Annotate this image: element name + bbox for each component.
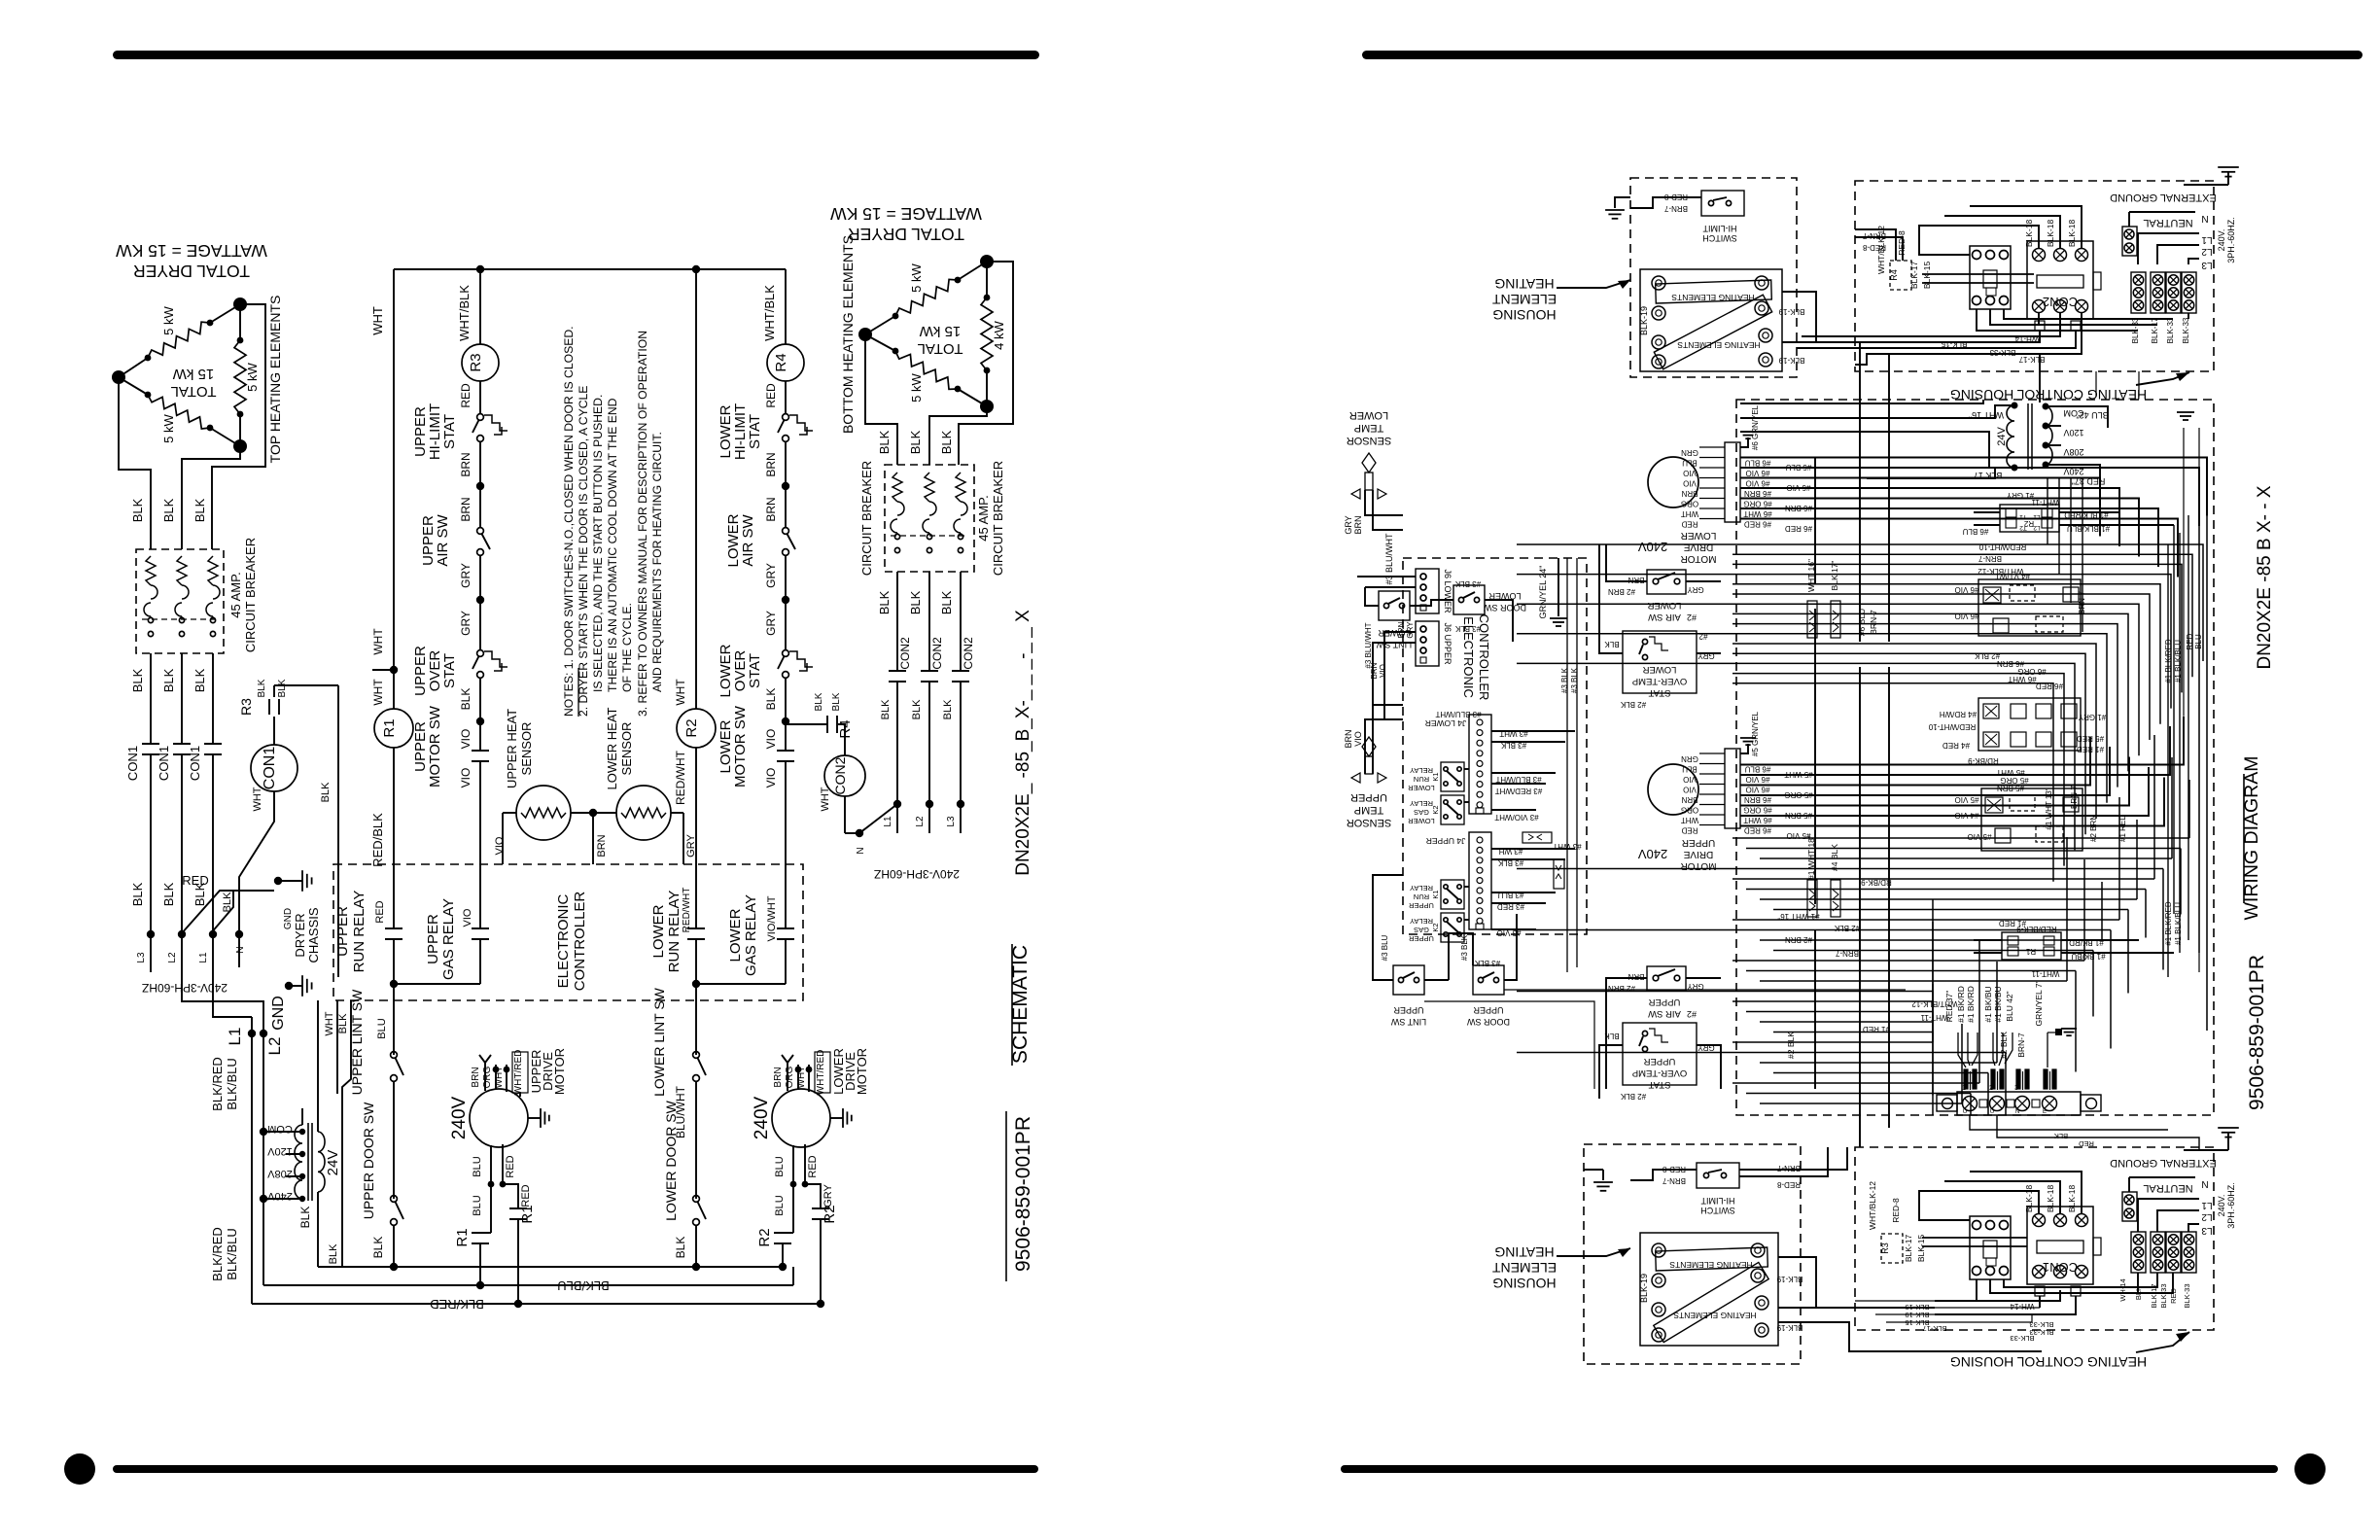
- svg-text:GRN: GRN: [1681, 754, 1698, 763]
- svg-text:STAT: STAT: [441, 414, 458, 449]
- lower gas relay contact: [777, 927, 794, 929]
- svg-text:HOUSING: HOUSING: [1492, 1276, 1556, 1291]
- svg-text:BRN: BRN: [764, 497, 778, 521]
- run capacitor contact R2 left: [783, 1232, 793, 1234]
- arrow to element housing (bottom): [1557, 1248, 1630, 1256]
- svg-text:BRN: BRN: [1681, 489, 1697, 498]
- svg-text:RED-8: RED-8: [1776, 1180, 1801, 1189]
- svg-text:T2: T2: [2019, 524, 2027, 531]
- svg-text:LINT SW: LINT SW: [1390, 1017, 1426, 1027]
- relay coil R3: [479, 269, 481, 344]
- upper lint switch: [391, 1052, 398, 1059]
- svg-text:LOWER: LOWER: [1642, 664, 1676, 675]
- svg-text:BLU: BLU: [472, 1195, 483, 1215]
- svg-text:R2: R2: [822, 1205, 838, 1223]
- svg-text:AIR SW: AIR SW: [435, 513, 451, 566]
- svg-text:#4 RD/WH: #4 RD/WH: [1940, 710, 1977, 718]
- bottom rail BLK/BLU: [263, 1284, 793, 1286]
- svg-text:BLK-19: BLK-19: [1776, 1275, 1802, 1283]
- svg-text:BLU: BLU: [774, 1156, 786, 1176]
- svg-text:WH-14: WH-14: [2014, 334, 2039, 343]
- svg-text:SWITCH: SWITCH: [1702, 233, 1737, 243]
- svg-text:L2: L2: [265, 1037, 284, 1056]
- power terminal strip bottom: [1957, 1092, 2081, 1115]
- wires hi-limit bottom to ground: [1630, 1170, 1697, 1180]
- wires element housing to control housing (top): [1782, 292, 1816, 342]
- breaker pole 1r: [892, 472, 902, 502]
- CON2 bottom wires: [2038, 313, 2040, 325]
- svg-text:BLK-19: BLK-19: [1778, 307, 1804, 316]
- svg-text:BLK: BLK: [130, 668, 145, 692]
- svg-text:UPPER: UPPER: [1643, 1056, 1675, 1067]
- upper over-temp stat box: [1623, 1023, 1697, 1085]
- heating elements inner box (top): [1640, 269, 1782, 371]
- svg-text:GAS: GAS: [1414, 808, 1429, 817]
- svg-text:#4 BLK: #4 BLK: [1830, 844, 1839, 871]
- svg-text:BLK: BLK: [257, 679, 267, 697]
- upper hi-limit stat: [477, 414, 484, 421]
- contactor coil CON1: [251, 745, 297, 791]
- svg-text:TOP HEATING ELEMENTS: TOP HEATING ELEMENTS: [267, 296, 283, 464]
- lower lint switch: [693, 1052, 700, 1059]
- svg-text:BLK: BLK: [277, 679, 288, 697]
- contactor CON1 box: [2027, 1207, 2093, 1284]
- heating elements inner box (bottom): [1640, 1233, 1778, 1346]
- svg-text:#6 RED: #6 RED: [2036, 682, 2063, 690]
- svg-text:L1: L1: [883, 816, 893, 827]
- svg-text:WHT: WHT: [1681, 509, 1698, 518]
- wires R2 box: [1974, 511, 2000, 513]
- svg-text:N: N: [2201, 213, 2208, 224]
- svg-text:LOWER LINT SW: LOWER LINT SW: [651, 987, 667, 1097]
- upper lint switch box: [1393, 965, 1424, 995]
- bottom rail BLK/RED: [252, 1303, 821, 1305]
- 45 amp circuit breaker box (left): [136, 549, 224, 653]
- wire delta to right leg: [212, 304, 265, 549]
- feed wires to L1/L2 columns: [213, 934, 252, 1017]
- svg-text:#6 WHT: #6 WHT: [2008, 675, 2036, 683]
- svg-text:TEMP: TEMP: [1354, 422, 1384, 434]
- svg-text:5 kW: 5 kW: [161, 305, 176, 334]
- svg-text:240V: 240V: [1637, 847, 1667, 861]
- svg-text:BLK: BLK: [880, 699, 892, 719]
- svg-text:#3 BLU/WHT: #3 BLU/WHT: [1435, 710, 1481, 718]
- upper drive motor (wiring): [1648, 764, 1698, 815]
- page top-left bar: [113, 51, 1039, 59]
- svg-text:#6 ORG: #6 ORG: [1743, 500, 1771, 508]
- wire delta left vertex to breaker L3: [119, 377, 151, 549]
- svg-text:RUN: RUN: [1414, 775, 1429, 784]
- svg-text:RD/BK-9: RD/BK-9: [1968, 756, 1999, 765]
- svg-text:L2: L2: [2201, 246, 2213, 257]
- svg-text:BLK-17: BLK-17: [1909, 262, 1919, 290]
- svg-text:BLK: BLK: [908, 590, 923, 614]
- svg-text:WHT: WHT: [324, 1011, 335, 1035]
- wire bundle lower motor to right: [1740, 458, 2207, 516]
- run capacitor contact R1 left: [480, 1232, 491, 1234]
- svg-text:GRN/YEL 7": GRN/YEL 7": [2034, 980, 2044, 1026]
- svg-text:RED: RED: [374, 900, 386, 923]
- relay R3 small box (bottom): [1881, 1234, 1903, 1263]
- run capacitor contact R1 right: [509, 1207, 527, 1209]
- svg-text:L1: L1: [226, 1028, 244, 1046]
- svg-text:E: E: [2043, 1109, 2047, 1115]
- svg-text:CON1: CON1: [262, 747, 278, 790]
- svg-text:#6 VIO: #6 VIO: [1955, 585, 1979, 594]
- svg-text:BLK-15: BLK-15: [1941, 339, 1967, 348]
- svg-text:BRN-7: BRN-7: [2070, 785, 2079, 809]
- svg-text:ORG: ORG: [1681, 500, 1698, 508]
- upper door switch box: [1473, 965, 1504, 995]
- svg-text:WHT: WHT: [370, 306, 385, 335]
- lower drive motor: [772, 1089, 830, 1147]
- wire delta bottom vertex to breaker L2: [182, 446, 240, 549]
- svg-text:BLK: BLK: [908, 430, 923, 454]
- svg-text:GRY: GRY: [1344, 515, 1353, 534]
- svg-text:R4: R4: [773, 353, 789, 371]
- svg-text:BRN-7: BRN-7: [1776, 1164, 1801, 1172]
- svg-text:TOTAL: TOTAL: [918, 340, 963, 357]
- svg-text:#3 BLU: #3 BLU: [1381, 934, 1389, 961]
- svg-text:ORG: ORG: [482, 1066, 493, 1088]
- svg-text:HEATING: HEATING: [1494, 1244, 1554, 1260]
- wires central box right risers: [2183, 428, 2185, 716]
- upper over stat: [477, 650, 484, 657]
- svg-text:BLK-17: BLK-17: [2151, 317, 2159, 343]
- svg-text:#6 VIO: #6 VIO: [1746, 786, 1770, 794]
- svg-text:BLK: BLK: [814, 692, 824, 711]
- svg-text:L1: L1: [2033, 513, 2041, 520]
- K relay wires upper: [1464, 886, 1469, 888]
- svg-text:BRN-7: BRN-7: [1663, 204, 1688, 213]
- svg-text:BLK: BLK: [222, 892, 233, 912]
- upper motor connector strip: [1725, 749, 1740, 828]
- svg-text:BLK: BLK: [911, 699, 923, 719]
- relay cluster lower-heat: [1978, 579, 2081, 636]
- terminal blocks 4x (bottom): [2131, 1232, 2146, 1273]
- svg-text:CIRCUIT BREAKER: CIRCUIT BREAKER: [991, 461, 1005, 576]
- wires breaker to CON1 contacts: [150, 653, 152, 744]
- svg-text:#3 BLK: #3 BLK: [1454, 579, 1481, 588]
- svg-text:WH-14: WH-14: [2010, 1302, 2034, 1311]
- lower over stat: [783, 650, 789, 657]
- svg-text:N: N: [856, 847, 866, 854]
- svg-text:#5 VIO: #5 VIO: [1968, 832, 1992, 841]
- svg-text:BRN-7: BRN-7: [2016, 1032, 2026, 1058]
- motor ground: [528, 1117, 541, 1119]
- lower air switch box: [1647, 570, 1686, 594]
- L1 feed column: [251, 1017, 253, 1304]
- svg-text:LOWER: LOWER: [1681, 530, 1717, 541]
- svg-text:RED: RED: [459, 383, 472, 408]
- bottom rail 1: [318, 1266, 783, 1268]
- svg-text:ELEMENT: ELEMENT: [1491, 1260, 1557, 1276]
- svg-text:#2 BLK: #2 BLK: [1834, 924, 1860, 932]
- J6 wires: [1357, 576, 1416, 577]
- svg-text:K2: K2: [1431, 805, 1440, 814]
- top rail: [394, 268, 786, 270]
- svg-text:GAS RELAY: GAS RELAY: [743, 894, 759, 976]
- inline connector pair lower: [1807, 601, 1817, 638]
- electronic controller dashed box: [333, 864, 803, 1000]
- svg-text:VIO: VIO: [764, 729, 778, 750]
- svg-text:VIO: VIO: [1683, 479, 1697, 488]
- svg-text:OF THE CYCLE.: OF THE CYCLE.: [620, 603, 634, 692]
- svg-text:WATTAGE = 15 KW: WATTAGE = 15 KW: [830, 204, 982, 224]
- svg-text:DN20X2E_ -85_B_X-_ _ _-_ _ X: DN20X2E_ -85_B_X-_ _ _-_ _ X: [1013, 610, 1033, 876]
- page bottom-left bar: [113, 1465, 1038, 1473]
- svg-text:BRN-7: BRN-7: [1869, 610, 1878, 635]
- svg-text:WHT: WHT: [371, 679, 385, 706]
- svg-text:RED: RED: [764, 383, 778, 408]
- J6 UPPER connector: [1416, 621, 1439, 666]
- breaker pole 2r: [925, 472, 934, 502]
- breaker pole 3r: [956, 472, 965, 502]
- svg-text:N: N: [2201, 1178, 2208, 1189]
- relay contact R4 aux: [826, 716, 828, 733]
- svg-text:GRY: GRY: [685, 834, 697, 857]
- K1 lower run relay: [1441, 762, 1464, 791]
- svg-text:RUN RELAY: RUN RELAY: [351, 891, 367, 973]
- svg-text:BLU: BLU: [1682, 459, 1697, 468]
- svg-text:#5 ORG: #5 ORG: [1784, 790, 1812, 799]
- upper temp sensor wires: [1365, 719, 1403, 774]
- svg-text:240V: 240V: [1637, 540, 1667, 554]
- svg-text:#2: #2: [1687, 612, 1697, 622]
- svg-text:CON1: CON1: [188, 746, 202, 781]
- heating element bar diagonal (top): [1654, 295, 1771, 369]
- upper air switch box: [1647, 966, 1686, 991]
- svg-text:9506-859-001PR: 9506-859-001PR: [2246, 955, 2268, 1110]
- svg-text:#4 RED: #4 RED: [1942, 741, 1970, 750]
- heating element bar diagonal (bottom): [1654, 1262, 1768, 1342]
- svg-text:J6 UPPER: J6 UPPER: [1443, 622, 1452, 665]
- transformer taps: [263, 1131, 302, 1133]
- svg-text:LOWER: LOWER: [650, 904, 667, 958]
- svg-text:#1 RED: #1 RED: [1863, 1025, 1890, 1033]
- motor upper leads: [484, 1063, 486, 1091]
- svg-text:#1 GRY: #1 GRY: [2078, 713, 2106, 721]
- svg-text:BRN: BRN: [471, 1067, 481, 1087]
- svg-text:OVER-TEMP: OVER-TEMP: [1632, 1067, 1687, 1078]
- svg-text:CON1: CON1: [125, 746, 140, 781]
- lower heat sensor: [616, 786, 671, 840]
- svg-text:#5 RED: #5 RED: [2077, 734, 2104, 743]
- svg-text:#6 GRN/YEL: #6 GRN/YEL: [1751, 404, 1760, 450]
- svg-text:RED-8: RED-8: [1897, 230, 1907, 256]
- vertical riser bundle right side: [2167, 544, 2169, 977]
- svg-text:RELAY: RELAY: [1410, 799, 1433, 808]
- lower motor grn/yel ground: [1740, 437, 1748, 447]
- svg-text:BLK/BLU: BLK/BLU: [225, 1228, 239, 1279]
- svg-text:SENSOR: SENSOR: [519, 722, 534, 776]
- svg-text:24V: 24V: [1996, 427, 2008, 446]
- arrow to element housing (top): [1557, 280, 1630, 288]
- svg-text:#6 VIO: #6 VIO: [1746, 479, 1770, 488]
- svg-text:#1 BLK/BLU: #1 BLK/BLU: [2174, 640, 2183, 682]
- svg-text:3. REFER TO OWNERS MANUAL FOR: 3. REFER TO OWNERS MANUAL FOR DESCRIPTIO…: [636, 331, 649, 717]
- svg-text:DRIVE: DRIVE: [1683, 849, 1713, 859]
- svg-text:BLK: BLK: [161, 882, 176, 906]
- svg-text:VIO: VIO: [1353, 731, 1363, 747]
- svg-text:#2: #2: [1687, 1009, 1697, 1019]
- motor ground lower: [830, 1117, 843, 1119]
- svg-text:BLK-18: BLK-18: [2024, 220, 2034, 248]
- svg-text:ELECTRONIC: ELECTRONIC: [555, 893, 572, 988]
- svg-text:COM: COM: [267, 1123, 293, 1135]
- element bolts (top): [1652, 276, 1665, 290]
- svg-text:BLK-33: BLK-33: [2182, 317, 2190, 343]
- svg-text:GRN/YEL 24": GRN/YEL 24": [1538, 566, 1548, 619]
- svg-text:#5 BRN: #5 BRN: [1785, 811, 1812, 820]
- terminal strip spade connectors: [1964, 1069, 1968, 1089]
- overload relay block (top): [1970, 246, 2011, 309]
- terminal box R1 L1L2 T1T2: [2002, 932, 2061, 960]
- svg-text:SWITCH: SWITCH: [1700, 1206, 1735, 1215]
- svg-text:BLK-18: BLK-18: [2024, 1185, 2034, 1213]
- heating element bar horizontal (top): [1656, 280, 1772, 303]
- motor lower leads lower: [792, 1145, 794, 1233]
- svg-text:R3: R3: [1880, 1242, 1890, 1254]
- svg-text:120V: 120V: [266, 1145, 292, 1157]
- lower switch wires: [1365, 587, 1379, 606]
- wires right breaker to CON2 contacts: [896, 572, 898, 671]
- horizontal wire bundle center-bottom: [1732, 837, 2189, 839]
- svg-text:VIO: VIO: [459, 729, 472, 750]
- svg-text:RED/WHT-10: RED/WHT-10: [1928, 722, 1976, 731]
- lower air switch: [783, 528, 789, 535]
- svg-text:BLK-33: BLK-33: [2159, 1283, 2168, 1308]
- neutral wire from CON1 coil: [239, 791, 274, 967]
- hi-limit switch (bottom element housing): [1697, 1163, 1739, 1188]
- svg-text:HEATING ELEMENTS: HEATING ELEMENTS: [1669, 1260, 1753, 1270]
- svg-text:AIR SW: AIR SW: [1648, 612, 1681, 622]
- svg-text:#6 VIO: #6 VIO: [1955, 612, 1979, 620]
- svg-text:#1 RED: #1 RED: [2118, 815, 2127, 842]
- terminal strip funnel wires: [1958, 1032, 1966, 1067]
- svg-text:#2 BRN: #2 BRN: [2089, 815, 2098, 842]
- svg-text:3PH.-60HZ.: 3PH.-60HZ.: [2226, 1182, 2236, 1229]
- wires element to control (bottom): [1778, 1257, 1935, 1308]
- svg-text:BOTTOM HEATING ELEMENTS: BOTTOM HEATING ELEMENTS: [840, 235, 856, 434]
- svg-text:BLK: BLK: [459, 688, 472, 711]
- 45 amp circuit breaker box (right): [885, 465, 974, 572]
- svg-text:RED: RED: [505, 1155, 516, 1177]
- wires CON1 coil: [273, 717, 275, 745]
- J6 LOWER connector: [1416, 569, 1439, 613]
- svg-text:TOTAL DRYER: TOTAL DRYER: [848, 225, 964, 244]
- svg-text:CON2: CON2: [930, 637, 944, 670]
- svg-text:UPPER: UPPER: [1408, 901, 1433, 910]
- svg-text:BLK-33: BLK-33: [2166, 317, 2175, 343]
- svg-text:LOWER: LOWER: [1378, 628, 1411, 638]
- svg-text:ORG: ORG: [1681, 806, 1698, 815]
- svg-text:R4: R4: [1889, 269, 1899, 281]
- inline connector pair upper: [1807, 880, 1817, 917]
- svg-text:CIRCUIT BREAKER: CIRCUIT BREAKER: [243, 538, 258, 652]
- svg-text:BLK: BLK: [328, 1243, 339, 1264]
- svg-text:HEATING: HEATING: [1494, 276, 1554, 292]
- wires R1 box: [1974, 939, 2002, 941]
- svg-text:TOTAL: TOTAL: [171, 383, 217, 400]
- svg-text:#2 BLK: #2 BLK: [1620, 700, 1646, 709]
- svg-text:RED-8: RED-8: [1662, 1165, 1686, 1173]
- svg-text:OVER-TEMP: OVER-TEMP: [1632, 676, 1687, 686]
- upper airsw/stat wires: [1606, 978, 1647, 1089]
- svg-text:U: U: [1963, 1109, 1967, 1115]
- upper switch wires: [1373, 875, 1403, 980]
- breaker pole 3: [208, 556, 218, 585]
- svg-text:5 kW: 5 kW: [245, 362, 260, 391]
- svg-text:VIO/WHT: VIO/WHT: [766, 895, 778, 941]
- wires top control to central box: [2039, 331, 2041, 342]
- svg-text:U: U: [1990, 1109, 1994, 1115]
- svg-text:K2: K2: [1431, 923, 1440, 931]
- contactor CON2 contact 1: [889, 670, 906, 672]
- svg-text:RED 37": RED 37": [1944, 991, 1954, 1023]
- svg-text:T1: T1: [2019, 513, 2027, 520]
- svg-text:N: N: [235, 946, 246, 953]
- svg-text:#1 BK/RD: #1 BK/RD: [1966, 986, 1976, 1023]
- svg-text:BLK-33: BLK-33: [2029, 1320, 2053, 1329]
- svg-text:CON1: CON1: [157, 746, 171, 781]
- svg-text:BLK: BLK: [192, 498, 207, 522]
- junction dot: [476, 482, 484, 490]
- svg-text:#2 BRN: #2 BRN: [1785, 935, 1812, 944]
- svg-text:SENSOR: SENSOR: [1347, 435, 1392, 446]
- svg-text:CON2: CON2: [962, 637, 975, 670]
- arrow to control housing (bottom): [2136, 1332, 2189, 1352]
- svg-text:HEATING ELEMENTS: HEATING ELEMENTS: [1671, 293, 1755, 302]
- svg-text:UPPER: UPPER: [1350, 791, 1387, 803]
- svg-text:BRN: BRN: [596, 834, 608, 857]
- svg-text:R1: R1: [2025, 947, 2036, 956]
- terminal blocks 4x (top): [2131, 272, 2146, 313]
- wires BLK-18 to CON1 top: [1919, 1191, 2039, 1220]
- svg-text:GAS: GAS: [1414, 926, 1429, 934]
- svg-text:#6 BRN: #6 BRN: [1744, 489, 1771, 498]
- svg-text:15 kW: 15 kW: [172, 366, 214, 382]
- svg-text:RED: RED: [807, 1155, 819, 1177]
- svg-text:BLK-18: BLK-18: [2067, 1185, 2077, 1213]
- svg-text:RUN: RUN: [1414, 892, 1429, 901]
- control transformer (wiring): [2007, 405, 2014, 468]
- svg-text:BLK-19: BLK-19: [1639, 306, 1649, 335]
- svg-text:RED: RED: [1681, 520, 1697, 529]
- svg-text:UPPER: UPPER: [1393, 1005, 1424, 1015]
- svg-text:#6 WHT: #6 WHT: [1743, 509, 1771, 518]
- svg-text:RED-8: RED-8: [1862, 243, 1886, 252]
- junction dot on left rail: [390, 666, 398, 674]
- relay cluster upper-heat: [1981, 788, 2082, 851]
- svg-text:5 kW: 5 kW: [161, 413, 176, 442]
- svg-text:WHT: WHT: [796, 1067, 807, 1089]
- svg-text:J4 LOWER: J4 LOWER: [1425, 718, 1467, 728]
- svg-text:LOWER: LOWER: [1647, 600, 1681, 611]
- svg-text:WHT/BLK: WHT/BLK: [762, 285, 777, 341]
- svg-text:240V-3PH-60HZ: 240V-3PH-60HZ: [874, 867, 960, 881]
- wires BLK-18 to CON2 top: [1919, 226, 2039, 255]
- svg-text:BRN: BRN: [459, 497, 472, 521]
- svg-text:WHT/BLK-12: WHT/BLK-12: [1977, 567, 2024, 576]
- lower run relay contact: [687, 927, 705, 929]
- svg-text:DN20X2E -85 B X- - X: DN20X2E -85 B X- - X: [2255, 485, 2275, 669]
- svg-text:#2 BLK: #2 BLK: [1786, 1032, 1796, 1059]
- svg-text:SENSOR: SENSOR: [619, 722, 634, 776]
- svg-text:WHT: WHT: [820, 787, 831, 811]
- contactor CON1 contact L1: [204, 743, 222, 745]
- svg-text:15 kW: 15 kW: [919, 323, 961, 339]
